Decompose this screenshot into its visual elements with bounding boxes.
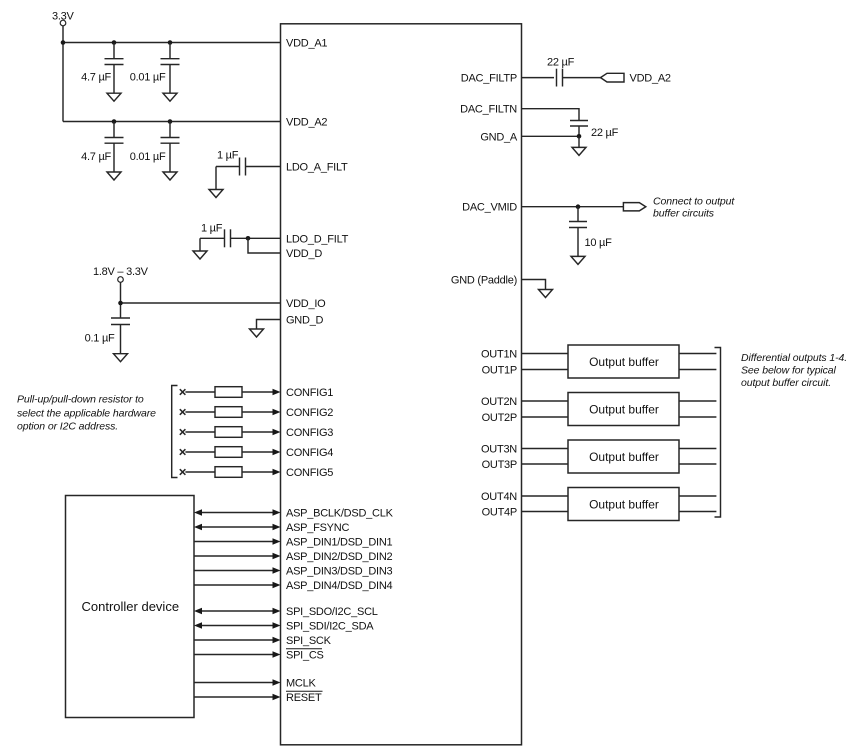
svg-text:OUT1P: OUT1P (482, 365, 517, 377)
wire GND_D (257, 320, 281, 330)
svg-text:select the applicable hardware: select the applicable hardware (17, 408, 156, 420)
wire buffer3 out top (679, 448, 716, 450)
wire OUT4P (522, 511, 569, 513)
svg-text:4.7 µF: 4.7 µF (81, 72, 111, 84)
node junction DAC_VMID (576, 204, 581, 209)
wire OUT1P (522, 369, 569, 371)
ground C4 (163, 172, 177, 180)
svg-text:ASP_BCLK/DSD_CLK: ASP_BCLK/DSD_CLK (286, 508, 394, 520)
wire ASP_DIN4 (194, 582, 281, 588)
svg-text:MCLK: MCLK (286, 678, 316, 690)
ground C10 (571, 256, 585, 264)
op-amp output buffer 2 (568, 393, 679, 426)
svg-text:SPI_SDO/I2C_SCL: SPI_SDO/I2C_SCL (286, 606, 378, 618)
svg-text:Connect to output: Connect to output (653, 196, 735, 208)
wire GND_A (522, 135, 580, 137)
svg-text:ASP_DIN4/DSD_DIN4: ASP_DIN4/DSD_DIN4 (286, 580, 393, 592)
node junction 3.3V/VDD_A1 (61, 40, 66, 45)
wire OUT3P (522, 463, 569, 465)
svg-text:Output buffer: Output buffer (589, 355, 659, 369)
wire buffer1 out top (679, 353, 716, 355)
node junction GND_A (577, 134, 582, 139)
svg-text:OUT1N: OUT1N (481, 349, 517, 361)
wire buffer1 out bottom (679, 369, 716, 371)
wire VDD_D tie (248, 238, 281, 253)
svg-text:ASP_DIN3/DSD_DIN3: ASP_DIN3/DSD_DIN3 (286, 566, 393, 578)
svg-text:22 µF: 22 µF (547, 57, 575, 69)
node junction C1 (112, 40, 117, 45)
node junction VDD_IO (118, 301, 123, 306)
controller device box (66, 496, 195, 718)
wire ASP_DIN2 (194, 553, 281, 559)
node junction C4 (168, 119, 173, 124)
wire OUT1N (522, 353, 569, 355)
wire ASP_DIN3 (194, 567, 281, 573)
wire VDD_A1 net (63, 42, 281, 44)
wire ASP_BCLK bidirectional (194, 509, 281, 515)
svg-text:CONFIG4: CONFIG4 (286, 447, 333, 459)
wire DAC_FILTN (522, 109, 580, 121)
wire buffer2 out bottom (679, 416, 716, 418)
annotation pull-up text (17, 394, 156, 433)
capacitor C7 0.1uF (85, 318, 130, 354)
annotation differential outputs text (741, 352, 847, 389)
wire OUT4N (522, 495, 569, 497)
wire SPI_SDI bidirectional (194, 622, 281, 628)
svg-text:Controller device: Controller device (82, 599, 180, 614)
ground GND_D (250, 329, 264, 337)
svg-text:CONFIG1: CONFIG1 (286, 387, 333, 399)
svg-text:CONFIG3: CONFIG3 (286, 427, 333, 439)
wire buffer4 out bottom (679, 511, 716, 513)
svg-text:buffer circuits: buffer circuits (653, 208, 715, 220)
svg-text:VDD_A2: VDD_A2 (630, 73, 671, 85)
capacitor C1 4.7uF (81, 43, 123, 94)
svg-text:ASP_DIN1/DSD_DIN1: ASP_DIN1/DSD_DIN1 (286, 537, 393, 549)
svg-text:GND (Paddle): GND (Paddle) (451, 275, 517, 287)
svg-text:See below for typical: See below for typical (741, 365, 837, 377)
svg-text:Output buffer: Output buffer (589, 403, 659, 417)
wire buffer4 out top (679, 495, 716, 497)
wire OUT3N (522, 448, 569, 450)
svg-text:GND_D: GND_D (286, 315, 324, 327)
capacitor C5 1uF LDO_A_FILT (216, 150, 281, 190)
svg-text:Output buffer: Output buffer (589, 498, 659, 512)
svg-text:OUT4P: OUT4P (482, 507, 517, 519)
svg-text:OUT3N: OUT3N (481, 444, 517, 456)
capacitor C3 4.7uF (81, 122, 123, 173)
svg-text:3.3V: 3.3V (52, 11, 75, 23)
wire MCLK (194, 679, 281, 685)
capacitor C10 10uF (569, 207, 612, 257)
svg-text:LDO_D_FILT: LDO_D_FILT (286, 233, 349, 245)
resistor R4 CONFIG4 (180, 447, 281, 458)
wire GND paddle (522, 280, 546, 290)
svg-text:RESET: RESET (286, 692, 322, 704)
svg-text:CONFIG5: CONFIG5 (286, 467, 333, 479)
wire ASP_FSYNC bidirectional (194, 524, 281, 530)
svg-text:LDO_A_FILT: LDO_A_FILT (286, 162, 348, 174)
ground C3 (107, 172, 121, 180)
net flag connect to output buffers (623, 196, 735, 220)
wire buffer2 out top (679, 400, 716, 402)
svg-text:Differential outputs 1-4.: Differential outputs 1-4. (741, 352, 847, 364)
ground C1 (107, 93, 121, 101)
power terminal 3.3V (52, 11, 75, 26)
pin label SPI_CS overline (286, 649, 324, 662)
svg-text:0.1 µF: 0.1 µF (85, 333, 115, 345)
capacitor C6 1uF LDO_D_FILT (200, 223, 281, 252)
power terminal 1.8V-3.3V (93, 266, 149, 282)
svg-text:0.01 µF: 0.01 µF (130, 151, 166, 163)
ground C6 (193, 251, 207, 259)
wire OUT2N (522, 400, 569, 402)
svg-text:Pull-up/pull-down resistor to: Pull-up/pull-down resistor to (17, 394, 144, 406)
svg-text:DAC_FILTP: DAC_FILTP (461, 73, 517, 85)
resistor R2 CONFIG2 (180, 407, 281, 418)
bracket config group (172, 386, 178, 478)
wire 3.3V vertical rail (62, 26, 64, 122)
ground C2 (163, 93, 177, 101)
svg-text:GND_A: GND_A (480, 131, 518, 143)
op-amp output buffer 4 (568, 488, 679, 521)
capacitor C9 22uF (570, 121, 619, 140)
ground GND_A (572, 136, 586, 155)
svg-text:4.7 µF: 4.7 µF (81, 151, 111, 163)
svg-text:VDD_D: VDD_D (286, 248, 322, 260)
capacitor C2 0.01uF (130, 43, 180, 94)
wire ASP_DIN1 (194, 538, 281, 544)
svg-text:OUT3P: OUT3P (482, 459, 517, 471)
IC U1 main device box (281, 24, 522, 745)
wire OUT2P (522, 416, 569, 418)
svg-text:Output buffer: Output buffer (589, 450, 659, 464)
resistor R5 CONFIG5 (180, 467, 281, 478)
svg-text:CONFIG2: CONFIG2 (286, 407, 333, 419)
svg-text:1 µF: 1 µF (201, 223, 223, 235)
wire RESET (194, 694, 281, 700)
resistor R3 CONFIG3 (180, 427, 281, 438)
svg-text:0.01 µF: 0.01 µF (130, 72, 166, 84)
wire VDD_IO net (121, 302, 281, 304)
svg-text:SPI_SDI/I2C_SDA: SPI_SDI/I2C_SDA (286, 621, 374, 633)
bracket differential outputs (715, 348, 721, 518)
wire SPI_CS (194, 651, 281, 657)
svg-text:VDD_A1: VDD_A1 (286, 38, 327, 50)
wire buffer3 out bottom (679, 463, 716, 465)
wire DAC_VMID (522, 206, 624, 208)
wire SPI_SDO bidirectional (194, 608, 281, 614)
svg-text:DAC_VMID: DAC_VMID (462, 202, 517, 214)
svg-text:OUT2P: OUT2P (482, 412, 517, 424)
svg-text:DAC_FILTN: DAC_FILTN (460, 104, 517, 116)
svg-text:1 µF: 1 µF (217, 150, 239, 162)
ground C7 (114, 354, 128, 362)
svg-text:ASP_DIN2/DSD_DIN2: ASP_DIN2/DSD_DIN2 (286, 551, 393, 563)
svg-text:VDD_IO: VDD_IO (286, 298, 326, 310)
svg-text:OUT2N: OUT2N (481, 396, 517, 408)
svg-text:10 µF: 10 µF (585, 237, 613, 249)
op-amp output buffer 3 (568, 440, 679, 473)
net flag VDD_A2 (601, 73, 671, 85)
wire SPI_SCK (194, 637, 281, 643)
svg-text:22 µF: 22 µF (591, 127, 619, 139)
svg-text:ASP_FSYNC: ASP_FSYNC (286, 522, 349, 534)
svg-text:1.8V – 3.3V: 1.8V – 3.3V (93, 266, 149, 278)
pin label RESET overline (286, 691, 323, 704)
capacitor C8 22uF DAC_FILTP (522, 57, 601, 87)
svg-text:SPI_CS: SPI_CS (286, 650, 324, 662)
node junction C3 (112, 119, 117, 124)
op-amp output buffer 1 (568, 345, 679, 378)
svg-text:SPI_SCK: SPI_SCK (286, 635, 332, 647)
wire VDD_A2 net (63, 121, 281, 123)
node junction LDO_D/VDD_D (246, 236, 251, 241)
svg-text:VDD_A2: VDD_A2 (286, 117, 327, 129)
node junction C2 (168, 40, 173, 45)
svg-text:output buffer circuit.: output buffer circuit. (741, 377, 831, 389)
svg-text:option or I2C address.: option or I2C address. (17, 421, 118, 433)
wire VDD_IO rail (120, 282, 122, 318)
svg-text:OUT4N: OUT4N (481, 491, 517, 503)
capacitor C4 0.01uF (130, 122, 180, 173)
ground paddle (539, 290, 553, 298)
ground C5 (209, 190, 223, 198)
resistor R1 CONFIG1 (180, 387, 281, 398)
